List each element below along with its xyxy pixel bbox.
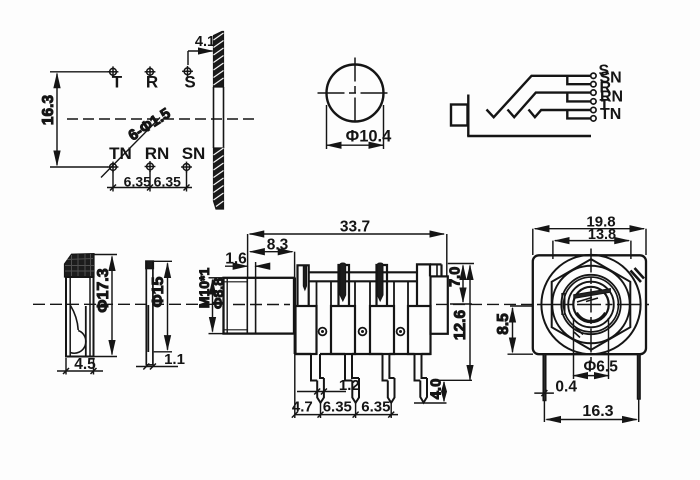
nut washer centerline: [33, 303, 218, 305]
pin 1: [317, 378, 324, 403]
svg-text:TN: TN: [109, 144, 132, 163]
front body square: [533, 255, 646, 354]
body bottom edge segments: [295, 353, 431, 355]
svg-text:SN: SN: [182, 144, 206, 163]
dimension 8.3 extension right: [294, 252, 296, 278]
PCB view centerline: [67, 118, 257, 120]
panel bar middle open section: [213, 87, 215, 148]
svg-text:Φ17.3: Φ17.3: [95, 268, 112, 312]
nut facet arc lower: [70, 331, 86, 354]
dimension 4.5 extension lines: [65, 358, 67, 375]
lug 1: [298, 265, 309, 306]
body front face: [294, 278, 296, 355]
pin extension 1: [320, 403, 322, 418]
svg-text:1.2: 1.2: [339, 377, 360, 394]
dimension phi17.3 line: [111, 257, 113, 355]
dimension 6.35 6.35 extension lines: [112, 171, 114, 192]
circle phi10.4: [327, 65, 384, 122]
stub wire RN: [567, 93, 590, 102]
contact rod 2: [340, 263, 346, 301]
svg-text:S: S: [184, 73, 195, 92]
pad R: [145, 66, 156, 77]
contact rail upper: [309, 271, 417, 273]
dimension M10 extension top: [209, 277, 224, 279]
washer tab detail: [562, 293, 565, 315]
contact rail lower: [309, 280, 417, 282]
spring clip detail: [631, 268, 645, 282]
washer bottom edge: [146, 364, 154, 366]
views connecting centerline: [436, 303, 532, 305]
dimension 4.1 line: [188, 50, 213, 52]
dimension phi6.5 line: [574, 375, 609, 377]
svg-text:Φ15: Φ15: [150, 276, 167, 307]
svg-text:4.1: 4.1: [195, 34, 215, 50]
dimension 1.6 line right: [256, 265, 268, 267]
tip contact shading: [577, 298, 598, 303]
terminal T: [591, 107, 596, 112]
lug 3: [377, 265, 388, 306]
terminal R: [591, 90, 596, 95]
thread circle inner: [564, 277, 619, 332]
dimension 1.1 line: [136, 366, 178, 368]
dimension 4.5 line: [57, 370, 103, 372]
switch arm T wire: [529, 110, 591, 118]
nut inner line right: [89, 277, 91, 357]
svg-text:16.3: 16.3: [40, 95, 57, 126]
svg-text:Φ8.8: Φ8.8: [210, 278, 226, 309]
leg 4: [415, 354, 428, 381]
terminal SN: [591, 82, 596, 87]
pad T: [108, 66, 119, 77]
svg-text:6.35: 6.35: [124, 174, 151, 190]
sleeve contact arc: [577, 313, 605, 321]
svg-text:TN: TN: [600, 106, 621, 123]
dimension 33.7 line: [250, 233, 444, 235]
svg-text:0.4: 0.4: [555, 378, 577, 395]
terminal block 1: [296, 306, 317, 354]
body right face upper: [440, 264, 442, 276]
switch arm R wire: [508, 93, 591, 118]
dimension 16.3 extensions: [543, 401, 545, 423]
dimension phi17.3 extension top: [94, 254, 117, 256]
pad SN: [181, 162, 192, 173]
circle centerline vertical: [354, 58, 356, 127]
right extension mid: [450, 303, 472, 305]
svg-text:6.35: 6.35: [361, 399, 390, 416]
rivet dot 2: [359, 328, 367, 336]
dimension phi17.3 extension bottom: [94, 356, 117, 358]
pin extension 3: [390, 403, 392, 418]
washer inner thick segment: [147, 305, 149, 352]
dimension phi15 extension top: [154, 260, 172, 262]
dimension phi10.4 line: [327, 144, 383, 146]
switch arm S wire: [487, 76, 591, 117]
svg-text:6-Φ1.5: 6-Φ1.5: [125, 105, 173, 145]
svg-text:RN: RN: [145, 144, 170, 163]
dimension 0.4 line: [534, 392, 554, 394]
bottom dimension line: [295, 414, 398, 416]
svg-text:12.6: 12.6: [452, 310, 469, 341]
dimension 16.3 line: [56, 74, 58, 166]
dimension 6.35 6.35 line: [107, 187, 192, 189]
dimension 4.0 extension top: [432, 379, 472, 381]
front ring circle: [568, 282, 614, 328]
pin 4: [420, 378, 427, 403]
svg-text:16.3: 16.3: [582, 403, 613, 420]
nut body outline: [66, 277, 94, 357]
panel bar hatched top section: [214, 32, 224, 88]
bushing flange line left: [246, 278, 248, 334]
dimension 1.6 line left: [225, 265, 247, 267]
svg-text:1.6: 1.6: [225, 251, 247, 268]
pin extension 2: [355, 403, 357, 418]
pad RN: [145, 161, 156, 172]
svg-text:6.35: 6.35: [154, 174, 181, 190]
rivet dot 3: [397, 328, 405, 336]
washer body left edge: [145, 261, 147, 365]
nut inner line left: [69, 277, 71, 357]
pin 2: [352, 378, 359, 403]
svg-text:4.0: 4.0: [428, 379, 445, 400]
bushing outline: [224, 278, 295, 334]
nut knurled crown: [65, 254, 95, 277]
terminal TN: [591, 116, 596, 121]
terminal block 2: [331, 306, 355, 354]
svg-text:T: T: [112, 73, 123, 92]
hole circle phi6.5: [573, 287, 608, 322]
boss circle: [541, 255, 640, 354]
terminal RN: [591, 99, 596, 104]
dimension phi10.4 extension lines: [326, 105, 328, 149]
nut facet arc upper: [70, 305, 78, 330]
leader line 6-phi1.5: [101, 118, 160, 178]
rear block: [431, 276, 448, 333]
dimension 33.7 extension left: [247, 234, 249, 278]
dimension 1.2 line: [297, 391, 346, 393]
dimension 19.8 line: [535, 228, 644, 230]
circle centerline horizontal: [318, 92, 392, 94]
dimension phi6.5 extensions: [573, 318, 575, 379]
svg-text:8.3: 8.3: [267, 237, 289, 254]
dimension 4.0 line: [443, 382, 445, 401]
nut facet line: [85, 306, 87, 357]
dimension 16.3 extension line top: [50, 71, 109, 73]
svg-text:6.35: 6.35: [323, 399, 352, 416]
dimension 13.8 extensions: [552, 241, 554, 259]
terminal S: [591, 73, 596, 78]
pad TN: [108, 162, 119, 173]
bushing flange line right: [255, 278, 257, 334]
dimension phi15 line: [167, 263, 169, 350]
dimension 8.5 line: [512, 308, 514, 352]
svg-text:7.0: 7.0: [448, 267, 464, 287]
stub wire SN: [567, 76, 590, 84]
dimension 4.0 extension bottom: [414, 402, 447, 404]
svg-text:8.5: 8.5: [495, 313, 512, 335]
lug 2: [339, 265, 350, 306]
dimension 19.8 extensions: [532, 229, 534, 255]
dimension 13.8 line: [555, 240, 629, 242]
svg-text:Φ6.5: Φ6.5: [584, 358, 619, 375]
dimension 1.6 extension: [255, 262, 257, 278]
dimension 8.3 line: [250, 251, 292, 253]
svg-text:1.1: 1.1: [164, 351, 185, 368]
stub wire TN: [567, 110, 590, 118]
dimension 33.7 extension right: [446, 234, 448, 276]
leg 3: [383, 354, 395, 381]
contact rod 1: [303, 266, 306, 290]
tip contact bar: [574, 289, 611, 299]
dimension 16.3 line: [546, 419, 636, 421]
dimension 7.0 line: [462, 266, 464, 303]
dimension M10 line: [212, 280, 214, 332]
contact rod 3: [377, 263, 383, 301]
front face extension: [294, 354, 296, 418]
svg-text:Φ10.4: Φ10.4: [346, 128, 392, 146]
svg-text:4.7: 4.7: [292, 399, 313, 416]
washer body right edge: [152, 261, 154, 365]
lug 4: [417, 264, 430, 306]
cavity walls: [317, 281, 409, 306]
sleeve contact hatch: [574, 328, 583, 338]
svg-text:4.5: 4.5: [74, 356, 96, 373]
body inner rear line: [436, 264, 438, 276]
dimension 8.5 extensions: [510, 305, 533, 307]
rivet dot 1: [319, 328, 327, 336]
pad S: [182, 66, 193, 77]
svg-text:13.8: 13.8: [588, 227, 616, 243]
pin 3: [388, 378, 395, 403]
sleeve wire: [467, 135, 591, 137]
leg 2: [345, 354, 359, 381]
dimension 4.1 riser from pad S: [187, 51, 189, 65]
front view centerline horizontal: [537, 304, 649, 306]
hex inscribed circle: [552, 266, 630, 344]
panel bar hatched bottom section: [214, 148, 224, 209]
dimension 16.3 extension line bottom: [50, 166, 108, 168]
dimension M10 extension bottom: [209, 333, 224, 335]
plug shaft: [467, 95, 469, 137]
svg-text:33.7: 33.7: [340, 219, 370, 236]
side view centerline: [233, 304, 290, 306]
washer top cap: [146, 261, 154, 269]
terminal block 4: [408, 306, 431, 354]
thread circle outer: [561, 275, 620, 334]
terminal block 3: [370, 306, 394, 354]
bushing thread relief line: [226, 278, 228, 334]
bushing thread root top: [224, 281, 248, 283]
svg-text:R: R: [146, 73, 158, 92]
dimension 12.6 line: [469, 266, 471, 380]
front right leg: [638, 354, 641, 399]
dimension phi15 extension bottom: [154, 351, 172, 353]
front view centerline vertical: [590, 249, 592, 363]
front left leg: [543, 354, 546, 400]
right extension top: [448, 263, 474, 265]
hex nut front: [552, 259, 631, 350]
leg 1: [311, 354, 324, 381]
plug tip: [451, 105, 468, 126]
bushing thread root bottom: [224, 329, 248, 331]
body top rear edge: [430, 263, 442, 265]
